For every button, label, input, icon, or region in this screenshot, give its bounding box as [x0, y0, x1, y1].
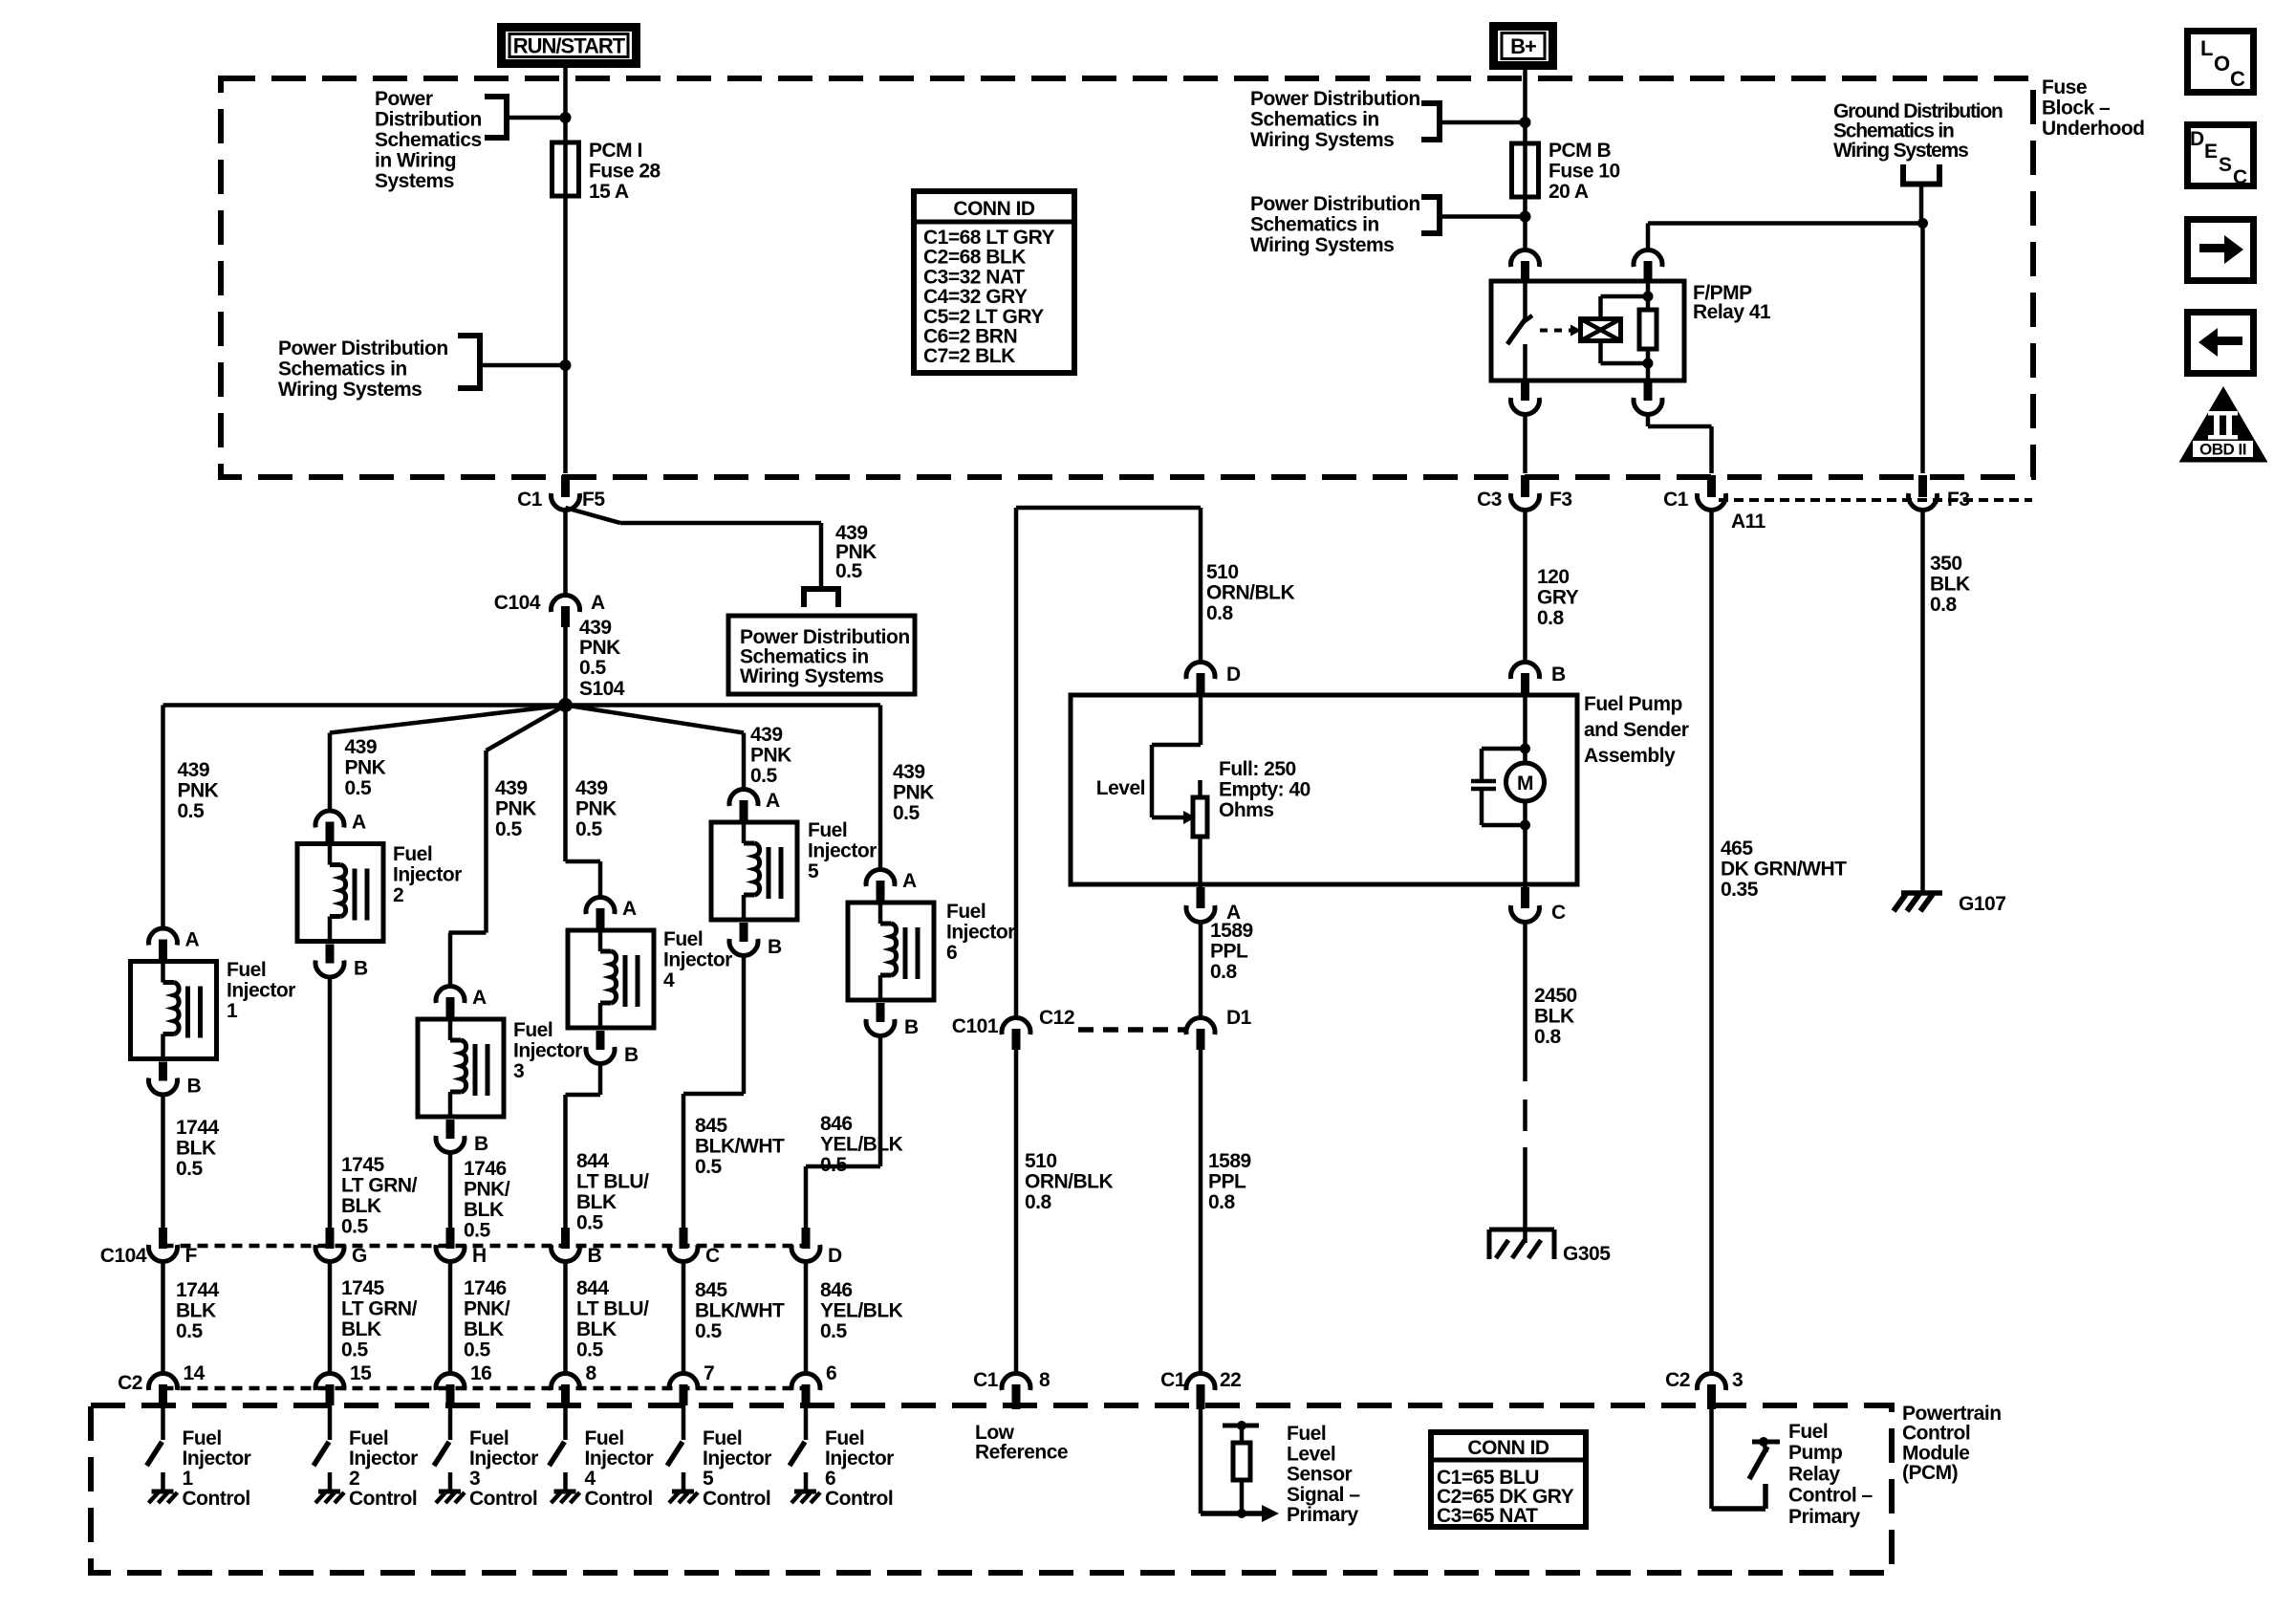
svg-text:3: 3: [469, 1468, 480, 1490]
svg-text:Injector: Injector: [825, 1448, 894, 1469]
svg-text:PPL: PPL: [1208, 1171, 1246, 1193]
svg-text:LT GRN/: LT GRN/: [341, 1175, 418, 1197]
svg-text:Pump: Pump: [1788, 1442, 1842, 1464]
svg-text:1: 1: [227, 1000, 238, 1022]
svg-text:Ohms: Ohms: [1219, 799, 1274, 821]
svg-text:0.5: 0.5: [341, 1216, 369, 1238]
svg-text:Control: Control: [469, 1488, 537, 1510]
svg-text:0.8: 0.8: [1534, 1026, 1562, 1048]
svg-text:844: 844: [576, 1150, 609, 1172]
svg-text:LT GRN/: LT GRN/: [341, 1298, 418, 1320]
svg-text:B: B: [354, 958, 368, 980]
svg-text:RUN/START: RUN/START: [513, 34, 626, 58]
svg-text:Powertrain: Powertrain: [1902, 1403, 2002, 1425]
svg-text:Primary: Primary: [1287, 1504, 1359, 1526]
svg-text:3: 3: [513, 1060, 524, 1082]
svg-text:439: 439: [893, 761, 925, 783]
svg-text:Level: Level: [1096, 777, 1145, 799]
svg-text:6: 6: [826, 1362, 836, 1384]
svg-text:0.8: 0.8: [1208, 1191, 1236, 1213]
svg-text:BLK: BLK: [464, 1318, 504, 1340]
svg-text:6: 6: [946, 942, 957, 964]
svg-text:439: 439: [495, 777, 528, 799]
svg-text:CONN ID: CONN ID: [1467, 1437, 1549, 1459]
svg-text:B: B: [624, 1044, 639, 1066]
svg-text:A: A: [902, 870, 917, 892]
svg-text:BLK/WHT: BLK/WHT: [695, 1136, 785, 1158]
svg-text:Fuse 28: Fuse 28: [589, 161, 661, 183]
svg-text:Schematics: Schematics: [375, 129, 482, 151]
svg-text:Schematics in: Schematics in: [1250, 214, 1379, 236]
svg-text:Fuel: Fuel: [808, 819, 847, 841]
svg-text:14: 14: [184, 1362, 206, 1384]
svg-text:D: D: [1226, 664, 1241, 686]
svg-text:C: C: [2230, 67, 2245, 91]
svg-text:20 A: 20 A: [1549, 181, 1589, 203]
svg-text:0.5: 0.5: [579, 657, 607, 679]
svg-text:0.5: 0.5: [820, 1154, 848, 1176]
svg-text:6: 6: [825, 1468, 835, 1490]
svg-text:0.5: 0.5: [178, 800, 206, 822]
svg-text:PNK: PNK: [345, 757, 386, 779]
svg-text:B: B: [1551, 664, 1566, 686]
svg-text:Injector: Injector: [808, 840, 877, 862]
svg-text:BLK: BLK: [176, 1138, 216, 1160]
svg-text:Distribution: Distribution: [375, 109, 482, 131]
svg-text:Power: Power: [375, 88, 433, 110]
svg-text:Reference: Reference: [975, 1442, 1068, 1464]
svg-text:0.5: 0.5: [575, 818, 603, 840]
svg-text:846: 846: [820, 1113, 853, 1135]
svg-text:0.5: 0.5: [464, 1220, 491, 1242]
svg-text:GRY: GRY: [1537, 587, 1579, 609]
svg-text:510: 510: [1025, 1150, 1057, 1172]
svg-text:0.5: 0.5: [820, 1320, 848, 1342]
svg-text:Relay 41: Relay 41: [1693, 301, 1771, 323]
svg-text:350: 350: [1930, 553, 1962, 575]
svg-text:1745: 1745: [341, 1277, 385, 1299]
svg-text:0.5: 0.5: [345, 777, 373, 799]
svg-text:G: G: [352, 1245, 367, 1267]
svg-text:Primary: Primary: [1788, 1506, 1861, 1528]
svg-text:PNK: PNK: [893, 782, 934, 804]
svg-text:Fuel: Fuel: [349, 1427, 388, 1449]
svg-text:0.8: 0.8: [1206, 602, 1234, 624]
svg-text:BLK/WHT: BLK/WHT: [695, 1300, 785, 1322]
svg-text:A: A: [591, 592, 605, 614]
svg-text:and Sender: and Sender: [1584, 719, 1689, 741]
svg-text:OBD II: OBD II: [2199, 441, 2246, 459]
svg-text:Block –: Block –: [2042, 98, 2111, 120]
svg-text:1589: 1589: [1210, 920, 1253, 942]
svg-text:0.5: 0.5: [464, 1339, 491, 1361]
svg-text:B: B: [588, 1245, 602, 1267]
svg-text:510: 510: [1206, 561, 1239, 583]
svg-text:PNK: PNK: [178, 780, 219, 802]
svg-text:0.35: 0.35: [1721, 879, 1759, 901]
svg-text:C1: C1: [1160, 1369, 1186, 1391]
svg-text:O: O: [2214, 52, 2230, 76]
svg-text:C: C: [2233, 166, 2247, 188]
svg-text:BLK: BLK: [576, 1191, 617, 1213]
svg-text:Fuel: Fuel: [1287, 1423, 1326, 1445]
svg-text:B: B: [768, 936, 782, 958]
svg-text:4: 4: [585, 1468, 596, 1490]
svg-text:Control: Control: [183, 1488, 250, 1510]
svg-text:BLK: BLK: [176, 1300, 216, 1322]
svg-text:L: L: [2200, 36, 2213, 60]
svg-text:A: A: [622, 898, 637, 920]
svg-text:Injector: Injector: [469, 1448, 538, 1469]
svg-text:0.8: 0.8: [1537, 607, 1565, 629]
svg-text:Control: Control: [825, 1488, 893, 1510]
svg-text:Injector: Injector: [703, 1448, 771, 1469]
svg-text:C3=65 NAT: C3=65 NAT: [1437, 1505, 1538, 1527]
svg-text:C2=68 BLK: C2=68 BLK: [923, 247, 1026, 269]
svg-text:ORN/BLK: ORN/BLK: [1025, 1171, 1113, 1193]
svg-text:PNK: PNK: [575, 798, 617, 820]
svg-text:1746: 1746: [464, 1277, 507, 1299]
svg-text:D1: D1: [1226, 1007, 1252, 1029]
svg-text:F5: F5: [582, 489, 605, 511]
svg-text:Fuel: Fuel: [585, 1427, 624, 1449]
svg-text:Power Distribution: Power Distribution: [1250, 193, 1420, 215]
svg-text:Injector: Injector: [663, 949, 732, 971]
svg-text:in Wiring: in Wiring: [375, 150, 456, 172]
svg-text:Schematics in: Schematics in: [278, 359, 407, 381]
svg-text:ORN/BLK: ORN/BLK: [1206, 582, 1294, 604]
svg-text:C2: C2: [118, 1372, 142, 1394]
svg-text:Wiring Systems: Wiring Systems: [278, 379, 422, 401]
svg-text:0.5: 0.5: [176, 1320, 204, 1342]
svg-text:F3: F3: [1549, 489, 1572, 511]
svg-text:PCM B: PCM B: [1549, 140, 1612, 162]
svg-text:439: 439: [178, 759, 210, 781]
svg-text:BLK: BLK: [341, 1195, 381, 1217]
svg-text:22: 22: [1220, 1369, 1241, 1391]
svg-text:0.5: 0.5: [576, 1339, 604, 1361]
svg-text:A: A: [352, 812, 366, 834]
svg-text:(PCM): (PCM): [1902, 1462, 1958, 1484]
svg-text:A: A: [185, 929, 200, 951]
svg-text:Fuse 10: Fuse 10: [1549, 161, 1620, 183]
svg-text:439: 439: [750, 724, 783, 746]
svg-text:C3=32 NAT: C3=32 NAT: [923, 266, 1025, 288]
svg-text:Empty: 40: Empty: 40: [1219, 779, 1310, 801]
svg-text:1744: 1744: [176, 1279, 220, 1301]
svg-text:5: 5: [808, 860, 819, 882]
svg-text:Fuel: Fuel: [1788, 1421, 1828, 1443]
svg-text:C: C: [705, 1245, 720, 1267]
svg-text:G107: G107: [1959, 893, 2005, 915]
svg-text:Injector: Injector: [393, 864, 462, 886]
svg-text:YEL/BLK: YEL/BLK: [820, 1134, 903, 1156]
svg-text:Underhood: Underhood: [2042, 118, 2144, 140]
svg-text:H: H: [472, 1245, 487, 1267]
svg-text:Fuel: Fuel: [703, 1427, 742, 1449]
svg-text:0.8: 0.8: [1930, 594, 1958, 616]
svg-text:BLK: BLK: [576, 1318, 617, 1340]
svg-text:2: 2: [349, 1468, 359, 1490]
svg-text:PNK: PNK: [750, 745, 791, 767]
svg-text:439: 439: [345, 736, 378, 758]
svg-text:0.8: 0.8: [1210, 961, 1238, 983]
svg-text:Fuel Pump: Fuel Pump: [1584, 693, 1682, 715]
svg-text:Injector: Injector: [946, 922, 1015, 944]
svg-text:1589: 1589: [1208, 1150, 1251, 1172]
svg-text:845: 845: [695, 1115, 727, 1137]
svg-text:B: B: [474, 1133, 488, 1155]
svg-text:C1: C1: [973, 1369, 999, 1391]
svg-text:D: D: [828, 1245, 842, 1267]
svg-text:8: 8: [586, 1362, 597, 1384]
svg-text:15: 15: [350, 1362, 372, 1384]
svg-text:PNK/: PNK/: [464, 1179, 510, 1201]
svg-text:Wiring Systems: Wiring Systems: [1250, 129, 1394, 151]
svg-text:1: 1: [183, 1468, 194, 1490]
svg-text:C: C: [1551, 902, 1566, 924]
svg-text:M: M: [1517, 773, 1533, 795]
svg-text:Fuel: Fuel: [183, 1427, 222, 1449]
svg-text:PNK: PNK: [579, 637, 620, 659]
svg-text:Wiring Systems: Wiring Systems: [740, 665, 883, 687]
svg-text:Power Distribution: Power Distribution: [1250, 88, 1420, 110]
svg-text:845: 845: [695, 1279, 727, 1301]
svg-text:C2: C2: [1665, 1369, 1690, 1391]
svg-text:C1: C1: [1663, 489, 1689, 511]
svg-text:A: A: [766, 790, 780, 812]
svg-text:0.5: 0.5: [576, 1212, 604, 1234]
svg-text:3: 3: [1732, 1369, 1743, 1391]
svg-text:F: F: [185, 1245, 198, 1267]
svg-text:Fuse: Fuse: [2042, 76, 2087, 98]
svg-text:S104: S104: [579, 678, 625, 700]
svg-text:A: A: [472, 987, 487, 1009]
svg-text:1746: 1746: [464, 1158, 507, 1180]
svg-text:Control: Control: [585, 1488, 653, 1510]
svg-text:2: 2: [393, 884, 403, 906]
svg-text:0.5: 0.5: [835, 560, 863, 582]
svg-text:Full: 250: Full: 250: [1219, 758, 1296, 780]
svg-text:Control: Control: [1902, 1423, 1970, 1445]
svg-text:Systems: Systems: [375, 170, 454, 192]
svg-text:Fuel: Fuel: [946, 901, 986, 923]
svg-text:S: S: [2219, 154, 2232, 176]
svg-text:0.5: 0.5: [750, 765, 778, 787]
svg-text:1745: 1745: [341, 1154, 385, 1176]
svg-text:A11: A11: [1731, 511, 1766, 533]
svg-text:Injector: Injector: [183, 1448, 251, 1469]
svg-text:0.5: 0.5: [695, 1320, 723, 1342]
svg-text:Injector: Injector: [513, 1040, 582, 1062]
svg-text:Control –: Control –: [1788, 1485, 1873, 1507]
svg-text:Fuel: Fuel: [469, 1427, 509, 1449]
svg-text:Signal –: Signal –: [1287, 1484, 1360, 1506]
svg-text:B+: B+: [1510, 34, 1536, 58]
svg-text:BLK: BLK: [1534, 1006, 1574, 1028]
svg-text:Control: Control: [349, 1488, 417, 1510]
svg-text:16: 16: [470, 1362, 491, 1384]
svg-text:Injector: Injector: [349, 1448, 418, 1469]
svg-text:Power Distribution: Power Distribution: [278, 337, 448, 359]
svg-text:C101: C101: [952, 1015, 999, 1037]
svg-text:0.5: 0.5: [341, 1339, 369, 1361]
svg-text:0.8: 0.8: [1025, 1191, 1052, 1213]
svg-text:Level: Level: [1287, 1443, 1335, 1465]
svg-text:C104: C104: [100, 1245, 147, 1267]
svg-text:Fuel: Fuel: [663, 928, 703, 950]
svg-text:Sensor: Sensor: [1287, 1464, 1353, 1486]
svg-text:439: 439: [575, 777, 608, 799]
svg-text:D: D: [2190, 128, 2204, 150]
svg-text:846: 846: [820, 1279, 853, 1301]
svg-text:Wiring Systems: Wiring Systems: [1250, 234, 1394, 256]
svg-text:15 A: 15 A: [589, 181, 629, 203]
svg-text:C7=2 BLK: C7=2 BLK: [923, 345, 1015, 367]
svg-text:PNK: PNK: [495, 798, 536, 820]
svg-text:PPL: PPL: [1210, 941, 1248, 963]
svg-text:4: 4: [663, 969, 675, 991]
svg-text:DK GRN/WHT: DK GRN/WHT: [1721, 859, 1847, 881]
svg-text:0.5: 0.5: [893, 802, 921, 824]
svg-text:C6=2 BRN: C6=2 BRN: [923, 326, 1017, 348]
svg-text:BLK: BLK: [464, 1199, 504, 1221]
svg-text:C1: C1: [517, 489, 543, 511]
svg-text:B: B: [904, 1016, 919, 1038]
svg-text:G305: G305: [1563, 1243, 1611, 1265]
svg-text:C12: C12: [1039, 1007, 1074, 1029]
svg-text:Control: Control: [703, 1488, 770, 1510]
svg-text:465: 465: [1721, 838, 1753, 860]
svg-text:LT BLU/: LT BLU/: [576, 1298, 649, 1320]
svg-text:Fuel: Fuel: [825, 1427, 864, 1449]
svg-text:8: 8: [1039, 1369, 1051, 1391]
svg-text:Schematics in: Schematics in: [1250, 109, 1379, 131]
svg-text:7: 7: [704, 1362, 714, 1384]
svg-text:Fuel: Fuel: [513, 1019, 552, 1041]
svg-text:CONN ID: CONN ID: [953, 198, 1035, 220]
svg-text:0.5: 0.5: [176, 1158, 204, 1180]
svg-text:YEL/BLK: YEL/BLK: [820, 1300, 903, 1322]
svg-text:0.5: 0.5: [495, 818, 523, 840]
svg-text:0.5: 0.5: [695, 1156, 723, 1178]
svg-text:C5=2 LT GRY: C5=2 LT GRY: [923, 306, 1044, 328]
svg-text:E: E: [2204, 141, 2218, 163]
svg-text:B: B: [187, 1076, 202, 1098]
svg-text:C3: C3: [1477, 489, 1502, 511]
svg-text:LT BLU/: LT BLU/: [576, 1171, 649, 1193]
svg-text:2450: 2450: [1534, 985, 1577, 1007]
svg-text:120: 120: [1537, 566, 1570, 588]
svg-text:Wiring Systems: Wiring Systems: [1833, 140, 1968, 162]
svg-text:844: 844: [576, 1277, 609, 1299]
svg-text:Module: Module: [1902, 1442, 1970, 1464]
svg-text:C104: C104: [494, 592, 541, 614]
svg-text:PNK/: PNK/: [464, 1298, 510, 1320]
svg-text:C4=32 GRY: C4=32 GRY: [923, 286, 1028, 308]
svg-text:BLK: BLK: [341, 1318, 381, 1340]
svg-text:439: 439: [579, 617, 612, 639]
svg-text:1744: 1744: [176, 1117, 220, 1139]
svg-text:Assembly: Assembly: [1584, 745, 1676, 767]
svg-text:BLK: BLK: [1930, 574, 1970, 596]
svg-text:Injector: Injector: [227, 980, 295, 1002]
svg-text:Injector: Injector: [585, 1448, 654, 1469]
svg-text:C1=68 LT GRY: C1=68 LT GRY: [923, 227, 1054, 249]
svg-text:5: 5: [703, 1468, 714, 1490]
svg-text:PCM I: PCM I: [589, 140, 642, 162]
svg-text:Fuel: Fuel: [393, 843, 432, 865]
svg-text:Fuel: Fuel: [227, 959, 266, 981]
svg-text:Relay: Relay: [1788, 1463, 1840, 1485]
